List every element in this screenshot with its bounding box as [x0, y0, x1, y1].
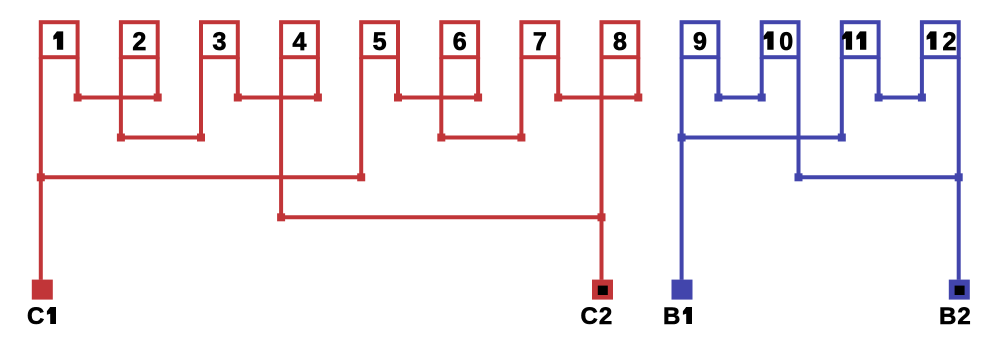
junction 9R [714, 94, 722, 102]
wire lead 1R [76, 57, 80, 97]
coil 7 box [521, 22, 558, 57]
wire lead 9R [716, 57, 720, 97]
svg-text:C: C [27, 303, 44, 330]
junction 4L [277, 213, 285, 221]
wire 10R to 12R [799, 175, 959, 179]
junction 3L [197, 134, 205, 142]
svg-text:9: 9 [693, 28, 707, 56]
wire lead 3R [236, 57, 240, 97]
svg-text:B2: B2 [939, 303, 972, 330]
wire 3R to 4R [238, 96, 318, 100]
coil 2 box [121, 22, 158, 57]
coil 11 number label [842, 31, 866, 49]
wire lead 12R (coil12 right, down to terminal B2) [957, 57, 961, 279]
wire lead 11R [877, 57, 881, 97]
terminal B1 pad [672, 280, 693, 300]
wire 5R to 6R [398, 96, 478, 100]
junction 12R [955, 173, 963, 181]
coil 10 box [762, 22, 799, 57]
wire 6L to 7L [441, 136, 521, 140]
coil 6 box [441, 22, 478, 57]
svg-text:7: 7 [533, 28, 547, 56]
wire lead 4L [279, 57, 283, 217]
wire lead 6L [439, 57, 443, 137]
junction 7L [517, 134, 525, 142]
wire lead 3L [199, 57, 203, 137]
coil 1 number label [53, 31, 63, 49]
svg-text:2: 2 [943, 28, 957, 56]
label B1 [663, 303, 692, 330]
coil 3 box [201, 22, 238, 57]
wire lead 2L [119, 57, 123, 137]
wire 4L to 8L [281, 215, 601, 219]
junction 4R [314, 94, 322, 102]
svg-text:B: B [663, 303, 680, 330]
svg-text:3: 3 [212, 28, 226, 56]
svg-text:C2: C2 [581, 303, 614, 330]
svg-text:2: 2 [132, 28, 146, 56]
wire 9L to 11L [682, 136, 842, 140]
wire lead 9L (coil9 left, down to terminal B1) [680, 57, 684, 279]
svg-text:4: 4 [293, 28, 307, 56]
coil 10 number label [764, 28, 793, 56]
junction 5L [357, 173, 365, 181]
coil 4 box [281, 22, 318, 57]
junction 9L [678, 134, 686, 142]
wire lead 11L [840, 57, 844, 137]
terminal B2 pad [949, 280, 970, 300]
wire lead 8L (coil8 left, down to terminal C2) [600, 57, 604, 279]
junction 10R [795, 173, 803, 181]
junction 5R [394, 94, 402, 102]
svg-text:6: 6 [453, 28, 467, 56]
junction 11R [875, 94, 883, 102]
junction 7R [554, 94, 562, 102]
coil 12 box [922, 22, 959, 57]
wire 1R to 2R [78, 96, 158, 100]
wire lead 10L [760, 57, 764, 97]
terminal C1 pad [32, 280, 53, 300]
coil 12 number label [927, 28, 957, 56]
junction 11L [838, 134, 846, 142]
coil 11 box [842, 22, 879, 57]
coil 1 box [41, 22, 78, 57]
wire 11R to 12L [879, 96, 922, 100]
label C1 [27, 303, 56, 330]
coil 5 box [361, 22, 398, 57]
wire 2L to 3L [121, 136, 201, 140]
junction 8R [634, 94, 642, 102]
junction 12L [918, 94, 926, 102]
junction 1R [74, 94, 82, 102]
wire lead 2R [156, 57, 160, 97]
coil 9 box [682, 22, 719, 57]
wire lead 5R [396, 57, 400, 97]
coil 8 box [602, 22, 639, 57]
wire lead 5L [359, 57, 363, 177]
terminal C2 pad [592, 280, 613, 300]
wire lead 12L [920, 57, 924, 97]
wire 9R to 10L [718, 96, 761, 100]
junction 2L [117, 134, 125, 142]
terminal C2 polarity mark [598, 286, 608, 295]
wire 1L to 5L [41, 175, 361, 179]
wire lead 7R [556, 57, 560, 97]
svg-text:8: 8 [613, 28, 627, 56]
wire 7R to 8R [558, 96, 638, 100]
junction 2R [154, 94, 162, 102]
junction 3R [234, 94, 242, 102]
junction 6L [437, 134, 445, 142]
junction 1L [37, 173, 45, 181]
svg-text:0: 0 [779, 28, 793, 56]
svg-text:5: 5 [373, 28, 387, 56]
wire lead 7L [519, 57, 523, 137]
junction 8L [598, 213, 606, 221]
wire lead 8R [636, 57, 640, 97]
wire lead 1L (coil1 left, down to terminal C1) [39, 57, 43, 279]
wire lead 10R [797, 57, 801, 177]
wire lead 6R [476, 57, 480, 97]
junction 10L [758, 94, 766, 102]
terminal B2 polarity mark [955, 286, 965, 295]
wire lead 4R [316, 57, 320, 97]
junction 6R [474, 94, 482, 102]
